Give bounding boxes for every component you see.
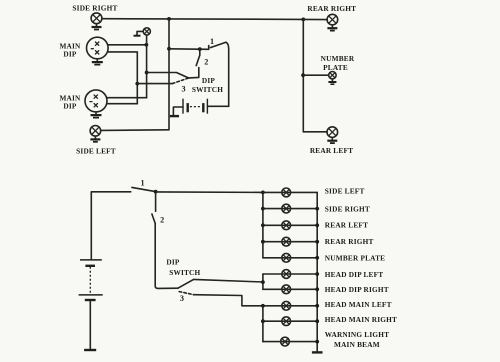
wire: row 4 REAR RIGHT xyxy=(263,241,317,243)
svg-text:SIDE RIGHT: SIDE RIGHT xyxy=(72,4,117,13)
lamp SIDE RIGHT (bottom) xyxy=(282,204,291,213)
wire: SIDE LEFT lamp to long feed vertical xyxy=(101,129,169,132)
lamp HEAD DIP LEFT xyxy=(282,270,291,279)
node: right bus / row 7 xyxy=(315,287,319,291)
dip switch blade alternate (bottom, dashed) xyxy=(179,292,193,295)
wire: dip-switch blade alternate position (dashed) xyxy=(172,78,188,84)
wire: switch 1 to battery (right side drop) xyxy=(226,42,229,106)
wire: row 9 HEAD MAIN RIGHT xyxy=(263,320,317,322)
label 3 (bottom dip switch) xyxy=(180,294,184,303)
node: junction switch feed / switch 2 tap xyxy=(198,47,202,51)
ground (under REAR RIGHT lamp) xyxy=(327,25,337,31)
battery (top circuit) xyxy=(183,99,229,114)
wire: row 7 HEAD DIP RIGHT xyxy=(263,288,317,290)
ground (battery negative, top circuit) xyxy=(170,107,183,116)
label HEAD MAIN LEFT (row 8) xyxy=(325,300,392,309)
label 3 (top dip switch) xyxy=(181,85,185,94)
label HEAD MAIN RIGHT (row 9) xyxy=(325,315,397,324)
label SIDE RIGHT (row 2) xyxy=(325,204,370,213)
lamp HEAD MAIN LEFT xyxy=(282,301,291,310)
lamp SIDE LEFT (top) xyxy=(90,126,101,137)
node: junction bus / number plate branch xyxy=(301,73,305,77)
wire: row 6 HEAD DIP LEFT xyxy=(263,273,317,275)
svg-text:SIDE LEFT: SIDE LEFT xyxy=(325,187,365,196)
ground (under REAR LEFT lamp) xyxy=(327,138,337,144)
node: junction warning line / upper dip-switch contact xyxy=(145,71,149,75)
svg-text:2: 2 xyxy=(160,216,164,225)
lamp warning light (main beam, top) xyxy=(143,28,150,35)
wire: left bus rows 1-5 xyxy=(262,192,264,257)
node: right bus / row 2 xyxy=(315,207,319,211)
node: junction top wire / long feed vertical xyxy=(167,17,171,21)
lamp SIDE RIGHT (top) xyxy=(91,13,102,24)
node: junction top wire / rear lamp bus xyxy=(301,18,305,22)
label NUMBER PLATE (row 5) xyxy=(325,254,385,263)
svg-text:HEAD DIP RIGHT: HEAD DIP RIGHT xyxy=(325,285,389,294)
label 1 (top switch) xyxy=(210,37,214,46)
node: bus / row 9 xyxy=(261,319,265,323)
lamp REAR RIGHT (bottom) xyxy=(282,237,291,246)
lamp HEAD MAIN RIGHT xyxy=(282,317,291,326)
label REAR RIGHT (row 4) xyxy=(325,237,374,246)
node: right bus / row 5 xyxy=(315,256,319,260)
svg-text:DIP: DIP xyxy=(63,102,77,111)
wire: row 3 REAR LEFT xyxy=(263,224,317,226)
wire: lower dip-switch contact xyxy=(137,83,172,85)
label REAR LEFT (row 3) xyxy=(325,221,368,230)
node: junction feed vertical / switch feed xyxy=(167,47,171,51)
svg-text:SIDE LEFT: SIDE LEFT xyxy=(76,147,116,156)
svg-text:WARNING LIGHT: WARNING LIGHT xyxy=(325,330,389,339)
label SIDE LEFT (top) xyxy=(76,147,116,156)
ground (under SIDE LEFT lamp) xyxy=(90,136,100,142)
label HEAD DIP LEFT (row 6) xyxy=(325,270,384,279)
wire: bus to REAR RIGHT lamp xyxy=(303,18,327,20)
svg-text:SWITCH: SWITCH xyxy=(192,85,223,94)
label HEAD DIP RIGHT (row 7) xyxy=(325,285,389,294)
svg-text:1: 1 xyxy=(140,178,144,187)
svg-text:NUMBER PLATE: NUMBER PLATE xyxy=(325,254,385,263)
svg-text:HEAD MAIN LEFT: HEAD MAIN LEFT xyxy=(325,300,392,309)
node: head main feed junction row 8 xyxy=(261,304,265,308)
switch 1 (top, lighting switch) xyxy=(209,42,226,49)
ground (right earth bus) xyxy=(312,351,323,353)
ground (battery negative terminal bar) xyxy=(84,349,96,351)
node: bus / row 2 xyxy=(261,207,265,211)
svg-text:DIP: DIP xyxy=(63,50,77,59)
wire: row 5 NUMBER PLATE xyxy=(263,257,317,259)
wire: upper headlamp dip filament, right then down xyxy=(108,52,137,104)
battery (bottom circuit) xyxy=(79,260,103,300)
label SIDE LEFT (row 1) xyxy=(325,187,365,196)
wire: long feed vertical xyxy=(168,19,170,130)
lamp NUMBER PLATE (bottom) xyxy=(282,253,291,262)
wire: lower headlamp main filament right then up xyxy=(107,97,147,99)
svg-text:REAR RIGHT: REAR RIGHT xyxy=(325,237,374,246)
node: junction main filament / warning lamp line xyxy=(145,43,149,47)
node: right bus / row 3 xyxy=(315,223,319,227)
svg-text:NUMBER: NUMBER xyxy=(321,54,355,63)
svg-text:REAR LEFT: REAR LEFT xyxy=(325,221,368,230)
node: right bus / row 10 xyxy=(315,340,319,344)
label DIP SWITCH (top) xyxy=(192,76,223,94)
svg-text:HEAD DIP LEFT: HEAD DIP LEFT xyxy=(325,270,384,279)
wire: warning lamp vertical (main-beam net) xyxy=(146,35,148,98)
label REAR RIGHT (top) xyxy=(307,4,356,13)
headlamp MAIN DIP (lower) xyxy=(85,90,107,112)
wire: row 8 HEAD MAIN LEFT xyxy=(263,305,317,307)
label MAIN DIP (upper headlamp) xyxy=(59,42,81,59)
svg-text:DIP: DIP xyxy=(202,76,216,85)
ground (under NUMBER PLATE lamp) xyxy=(328,79,336,84)
wire: row 10 WARNING LIGHT xyxy=(263,341,317,343)
wire: switch 1 to lamp bus (side/rear feed) xyxy=(156,191,263,194)
dip switch blade (bottom, solid position) xyxy=(178,279,194,288)
switch 1 (bottom) blade xyxy=(132,187,155,191)
wire: row 1 SIDE LEFT xyxy=(263,191,317,193)
lamp SIDE LEFT (bottom) xyxy=(282,188,291,197)
node: head dip feed junction xyxy=(261,280,265,284)
wire: rear lamp bus vertical xyxy=(302,19,304,131)
node: bus / row 4 xyxy=(261,240,265,244)
lamp WARNING LIGHT MAIN BEAM xyxy=(281,337,290,346)
wire: switch 2 down to dip switch pivot xyxy=(155,224,178,289)
label 2 (top switch) xyxy=(204,58,208,67)
node: right bus / row 8 xyxy=(315,304,319,308)
svg-text:REAR RIGHT: REAR RIGHT xyxy=(307,4,356,13)
switch 2 (top) xyxy=(189,49,200,78)
svg-text:DIP: DIP xyxy=(166,257,180,266)
wire: head dip feed xyxy=(194,279,263,282)
svg-text:SWITCH: SWITCH xyxy=(169,268,200,277)
svg-text:1: 1 xyxy=(210,37,214,46)
node: junction switch 1 output xyxy=(154,190,158,194)
wire: row 2 SIDE RIGHT xyxy=(263,208,317,210)
svg-text:HEAD MAIN RIGHT: HEAD MAIN RIGHT xyxy=(325,315,397,324)
svg-text:SIDE RIGHT: SIDE RIGHT xyxy=(325,204,370,213)
wire: upper headlamp main filament to warning-lamp line xyxy=(108,44,146,46)
ground (under SIDE RIGHT lamp) xyxy=(92,24,102,30)
label WARNING LIGHT MAIN BEAM (row 10) xyxy=(325,330,389,349)
lamp REAR RIGHT xyxy=(327,14,338,25)
label REAR LEFT (top) xyxy=(310,146,353,155)
svg-text:3: 3 xyxy=(180,294,184,303)
wire: bus to NUMBER PLATE lamp xyxy=(303,74,329,76)
lamp NUMBER PLATE xyxy=(329,72,336,79)
svg-text:REAR LEFT: REAR LEFT xyxy=(310,146,353,155)
svg-text:3: 3 xyxy=(181,85,185,94)
svg-text:PLATE: PLATE xyxy=(323,63,348,72)
node: bus / row 3 xyxy=(261,223,265,227)
wire: battery negative lead (bottom) xyxy=(89,301,91,349)
wire: SIDE RIGHT lamp to rear bus (top feed wire) xyxy=(102,18,303,21)
svg-text:MAIN BEAM: MAIN BEAM xyxy=(334,340,380,349)
node: right bus / row 6 xyxy=(315,272,319,276)
ground (under upper headlamp) xyxy=(92,59,103,65)
wire: left bus rows 8-10 xyxy=(262,306,264,342)
wire: left bus rows 6-7 xyxy=(262,274,264,289)
wire: lower headlamp dip filament right then up xyxy=(107,103,137,105)
label DIP SWITCH (bottom) xyxy=(166,257,200,277)
wire: right earth bus xyxy=(316,192,318,351)
wire: upper dip-switch contact xyxy=(147,73,189,79)
ground (under lower headlamp) xyxy=(91,112,102,118)
wire: battery positive to switch 1 (bottom) xyxy=(91,192,131,259)
wire: head main feed xyxy=(193,295,263,306)
switch 2 (bottom) xyxy=(152,192,156,224)
wire: feed to switch 1 xyxy=(169,48,209,51)
label NUMBER PLATE (top) xyxy=(321,54,355,72)
node: right bus / row 9 xyxy=(315,319,319,323)
label SIDE RIGHT (top) xyxy=(72,4,117,13)
headlamp MAIN DIP (upper) xyxy=(87,37,109,59)
label 1 (bottom switch) xyxy=(140,178,144,187)
lamp REAR LEFT xyxy=(327,127,338,138)
node: bus / row 1 xyxy=(261,191,265,195)
label MAIN DIP (lower headlamp) xyxy=(59,94,81,111)
svg-text:2: 2 xyxy=(204,58,208,67)
lamp HEAD DIP RIGHT xyxy=(282,285,291,294)
node: right bus / row 4 xyxy=(315,240,319,244)
ground (left of warning lamp) xyxy=(134,31,144,35)
wire: bus corner to REAR LEFT lamp xyxy=(303,131,327,133)
label 2 (bottom switch) xyxy=(160,216,164,225)
lamp REAR LEFT (bottom) xyxy=(282,221,291,230)
node: junction dip filament line / lower contact wire xyxy=(135,82,139,86)
